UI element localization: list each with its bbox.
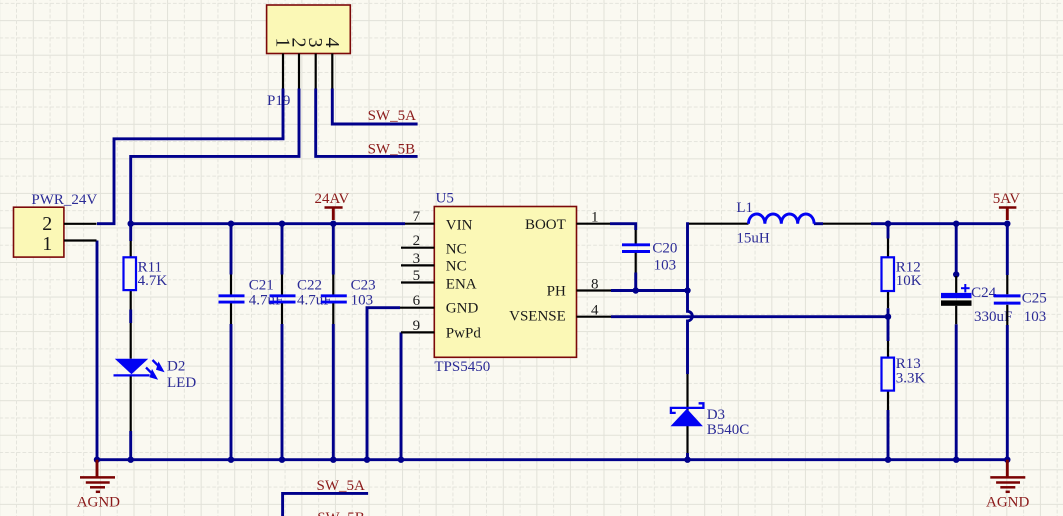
svg-text:TPS5450: TPS5450 (434, 359, 490, 375)
wire VSENSE to divider (611, 315, 888, 318)
svg-text:C23: C23 (351, 277, 376, 293)
wire R12 bottom (887, 308, 890, 317)
junction ground D2 (128, 457, 134, 463)
svg-text:PWR_24V: PWR_24V (31, 192, 97, 208)
svg-text:2: 2 (413, 233, 421, 249)
wire R12 top (887, 224, 890, 239)
svg-text:4: 4 (321, 38, 343, 48)
wire net PWR pin2 to P19 pin1 (97, 89, 283, 224)
svg-text:9: 9 (413, 318, 421, 334)
capacitor C23 (332, 275, 334, 295)
connector P19 (267, 5, 351, 54)
svg-text:103: 103 (654, 257, 677, 273)
capacitor C22 (281, 275, 283, 295)
junction ground R13 (885, 457, 891, 463)
LED D2 (130, 323, 132, 359)
pin 4 of P19 (331, 54, 333, 89)
pin 1 of P19 (282, 54, 284, 89)
pin 6 GND (400, 307, 434, 309)
capacitor C21 (230, 275, 232, 295)
capacitor C25 (1006, 275, 1008, 294)
wire PH to node (611, 289, 688, 292)
pin 8 PH (577, 289, 612, 291)
diode D3 (686, 374, 688, 453)
wire PH node up to L1 (688, 224, 690, 291)
svg-text:1: 1 (42, 233, 52, 255)
svg-text:AGND: AGND (986, 494, 1029, 510)
pin 4 VSENSE (577, 316, 612, 318)
resistor R13 (887, 341, 889, 358)
svg-text:C21: C21 (249, 277, 274, 293)
wire bottom SW_5A (283, 493, 369, 516)
svg-text:4.7K: 4.7K (138, 273, 168, 289)
svg-text:24AV: 24AV (315, 191, 350, 207)
pin 2 of P19 (298, 54, 300, 89)
junction R12 rail (885, 221, 891, 227)
svg-text:SW_5B: SW_5B (368, 141, 416, 157)
wire D2 to ground bus (129, 431, 132, 460)
wire C24 bottom (955, 324, 958, 460)
svg-text:SW_5B: SW_5B (317, 510, 365, 516)
pin 7 VIN (405, 223, 434, 225)
pin 9 PwPd (401, 331, 434, 333)
svg-text:GND: GND (446, 300, 479, 316)
svg-text:1: 1 (591, 210, 599, 226)
wire P19 pin4 to SW_5A (332, 89, 417, 125)
junction ground C22 (279, 457, 285, 463)
svg-text:P19: P19 (267, 93, 290, 109)
ground AGND left (96, 460, 99, 477)
pin 2 NC (401, 247, 434, 249)
power port 5AV (1006, 208, 1009, 221)
wire C25 top (1006, 224, 1009, 275)
svg-text:D2: D2 (167, 359, 185, 375)
junction ground AGND right (1004, 457, 1010, 463)
wire PH node down with hop over VSENSE (688, 291, 693, 375)
power port 24AV (332, 208, 335, 221)
inductor L1 (689, 223, 749, 225)
svg-text:D3: D3 (707, 407, 725, 423)
wire R13 bottom (887, 410, 890, 460)
wire BOOT to C20 (610, 224, 636, 230)
svg-text:5AV: 5AV (993, 191, 1020, 207)
svg-text:LED: LED (167, 375, 196, 391)
svg-text:AGND: AGND (77, 494, 120, 510)
wire P19 pin3 to SW_5B (316, 89, 418, 157)
svg-text:2: 2 (42, 213, 52, 235)
wire C21 top (230, 224, 233, 275)
junction VSENSE divider (885, 314, 891, 320)
wire GND pin6 to ground bus (367, 308, 400, 460)
svg-text:6: 6 (413, 293, 421, 309)
svg-text:3: 3 (413, 251, 421, 267)
svg-text:VSENSE: VSENSE (509, 308, 566, 324)
svg-text:103: 103 (351, 292, 374, 308)
wire C23 top (332, 224, 335, 275)
svg-text:C25: C25 (1022, 291, 1047, 307)
svg-text:15uH: 15uH (736, 231, 770, 247)
junction ground C23 (330, 457, 336, 463)
capacitor C24 polarized (955, 276, 957, 293)
wire 24AV bus (131, 222, 405, 225)
wire C23 bottom (332, 324, 335, 460)
wire L1 tail (814, 222, 823, 225)
svg-text:B540C: B540C (707, 422, 750, 438)
pin 1 of PWR_24V (64, 239, 97, 241)
wire C24 top (955, 224, 958, 276)
svg-text:103: 103 (1024, 309, 1047, 325)
wire C25 bottom (1006, 325, 1009, 460)
svg-text:5: 5 (413, 268, 421, 284)
wire PwPd pin9 to ground bus (400, 332, 403, 459)
junction ground AGND left (94, 457, 100, 463)
junction ground C24 (953, 457, 959, 463)
op-amp U5 body (434, 207, 576, 358)
svg-text:BOOT: BOOT (525, 217, 566, 233)
svg-text:SW_5A: SW_5A (368, 108, 417, 124)
svg-text:L1: L1 (736, 200, 753, 216)
svg-text:VIN: VIN (446, 218, 473, 234)
connector PWR_24V (14, 207, 64, 257)
resistor R12 (887, 239, 889, 258)
resistor R11 (130, 241, 132, 257)
junction C22 top (279, 221, 285, 227)
wire 5AV rail (871, 222, 1007, 225)
junction C23 24AV (330, 221, 336, 227)
pin 3 of P19 (315, 54, 317, 89)
wire PWR pin1 down to ground (96, 241, 99, 460)
svg-text:4: 4 (591, 303, 599, 319)
svg-text:PwPd: PwPd (446, 325, 482, 341)
junction ground D3 (684, 457, 690, 463)
svg-text:ENA: ENA (446, 276, 477, 292)
junction PH node (684, 287, 690, 293)
junction ground GND pin (364, 457, 370, 463)
junction C24 stub (953, 271, 959, 277)
wire C21 bottom (230, 324, 233, 460)
svg-text:PH: PH (547, 283, 566, 299)
junction C20 PH (633, 287, 639, 293)
wire C20 bottom to PH node (634, 273, 637, 291)
junction C21 top (228, 221, 234, 227)
svg-text:10K: 10K (896, 273, 922, 289)
wire D3 to ground bus (686, 453, 689, 460)
pin 1 BOOT (577, 223, 611, 225)
svg-text:U5: U5 (436, 191, 454, 207)
svg-text:C24: C24 (971, 285, 997, 301)
junction ground C21 (228, 457, 234, 463)
wire net P19 pin2 to 24AV junction (131, 89, 299, 224)
svg-text:NC: NC (446, 258, 467, 274)
svg-text:3.3K: 3.3K (896, 371, 926, 387)
pin 5 ENA (401, 281, 434, 283)
ground AGND right (1006, 460, 1009, 477)
pin 3 NC (401, 264, 434, 266)
svg-text:C20: C20 (652, 240, 677, 256)
junction ground PwPd pin (398, 457, 404, 463)
wire ground bus (97, 458, 1007, 461)
wire C22 top (281, 224, 284, 275)
wire C22 bottom (281, 324, 284, 460)
svg-text:NC: NC (446, 242, 467, 258)
svg-text:8: 8 (591, 277, 599, 293)
junction 24AV R11 (128, 221, 134, 227)
wire R13 top (887, 317, 890, 341)
junction 5AV corner (1004, 221, 1010, 227)
svg-text:7: 7 (413, 209, 421, 225)
svg-text:C22: C22 (297, 277, 322, 293)
wire R11 top (129, 224, 132, 241)
junction C24 rail (953, 221, 959, 227)
svg-text:SW_5A: SW_5A (317, 478, 366, 494)
wire R11 to D2 (129, 310, 132, 324)
capacitor C20 (635, 230, 637, 244)
pin 2 of PWR_24V (64, 223, 97, 225)
